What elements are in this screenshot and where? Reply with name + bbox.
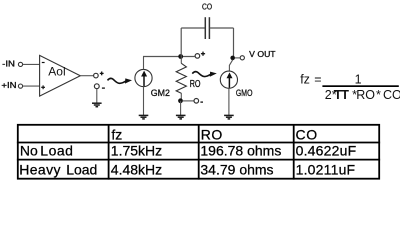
svg-text:Load: Load bbox=[66, 161, 97, 177]
svg-text:-IN: -IN bbox=[2, 60, 15, 69]
svg-text:1.0211uF: 1.0211uF bbox=[296, 161, 356, 177]
svg-text:RO: RO bbox=[190, 79, 201, 90]
svg-text:TT: TT bbox=[334, 87, 349, 102]
svg-text:34.79 ohms: 34.79 ohms bbox=[200, 161, 273, 177]
svg-text:4.48kHz: 4.48kHz bbox=[111, 161, 162, 177]
svg-text:No: No bbox=[20, 142, 38, 158]
svg-text:=: = bbox=[314, 73, 321, 87]
svg-text:GM2: GM2 bbox=[151, 88, 170, 99]
svg-text:196.78 ohms: 196.78 ohms bbox=[200, 142, 281, 158]
svg-text:GMO: GMO bbox=[236, 88, 253, 99]
svg-text:fz: fz bbox=[300, 73, 310, 87]
svg-text:1.75kHz: 1.75kHz bbox=[111, 142, 162, 158]
svg-text:RO: RO bbox=[201, 127, 223, 143]
svg-text:Heavy: Heavy bbox=[19, 161, 61, 177]
svg-text:CO: CO bbox=[296, 127, 318, 143]
svg-text:Aol: Aol bbox=[48, 64, 65, 78]
svg-text:fz: fz bbox=[111, 127, 122, 143]
svg-text:0.4622uF: 0.4622uF bbox=[296, 142, 357, 158]
svg-text:CO: CO bbox=[202, 2, 212, 11]
svg-text:CO: CO bbox=[383, 88, 400, 102]
svg-text:+IN: +IN bbox=[1, 81, 16, 90]
svg-text:1: 1 bbox=[355, 73, 362, 87]
svg-text:V OUT: V OUT bbox=[249, 50, 276, 59]
svg-text:*: * bbox=[376, 88, 381, 102]
svg-text:RO: RO bbox=[356, 88, 375, 102]
svg-text:Load: Load bbox=[40, 142, 73, 158]
